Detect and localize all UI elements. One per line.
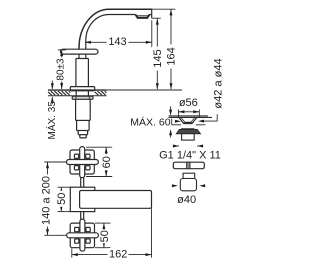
- svg-text:145: 145: [152, 49, 164, 67]
- svg-text:60: 60: [101, 156, 113, 168]
- svg-text:140 a 200: 140 a 200: [40, 176, 52, 225]
- svg-text:MÁX. 60: MÁX. 60: [130, 116, 170, 129]
- svg-text:ø56: ø56: [179, 97, 198, 109]
- svg-text:G1 1/4" X 11: G1 1/4" X 11: [159, 149, 221, 161]
- svg-text:MÁX. 35: MÁX. 35: [45, 101, 58, 140]
- svg-text:162: 162: [109, 249, 127, 261]
- svg-text:143: 143: [108, 36, 126, 48]
- svg-text:50: 50: [99, 230, 111, 242]
- svg-text:80±3: 80±3: [55, 58, 66, 81]
- svg-text:50: 50: [56, 193, 68, 205]
- svg-text:ø40: ø40: [177, 194, 196, 206]
- svg-text:ø42 a ø44: ø42 a ø44: [212, 58, 224, 108]
- svg-text:164: 164: [166, 47, 178, 65]
